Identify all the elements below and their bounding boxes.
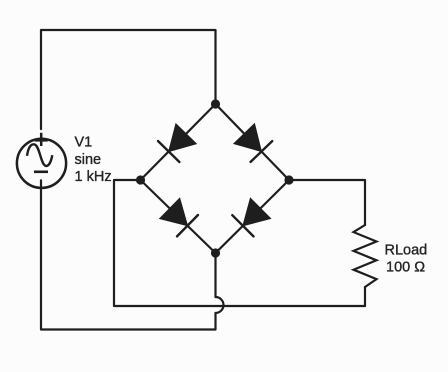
label V1 value [75,135,112,186]
node left (bridge) [136,175,145,184]
wire top from V1 to top node [41,30,216,129]
wire RLoad bottom lead [364,287,366,306]
diode D4 (bottom-right arm) [232,198,270,236]
voltage source V1 [17,133,66,188]
svg-text:V1: V1 [75,135,93,151]
label RLoad value [385,243,428,276]
diode D1 (top-left arm) [158,124,196,162]
svg-text:1 kHz: 1 kHz [75,169,112,185]
wire bridge edge bottom-left [141,180,216,253]
svg-text:sine: sine [75,152,102,168]
diode D3 (bottom-left arm) [160,198,198,236]
wire from hop to bridge bottom node [214,253,216,297]
svg-text:100 Ω: 100 Ω [386,260,425,276]
diode D2 (top-right arm) [234,124,272,162]
resistor RLoad zigzag [354,225,377,287]
wire bridge edge top-right [216,104,290,180]
wire left node to bottom horizontal rail [114,180,365,306]
wire hop over horizontal rail [216,297,224,313]
wire right node to RLoad top [289,180,365,225]
node bottom (bridge) [211,248,220,257]
wire V1 bottom to bottom rail [41,180,216,329]
node right (bridge) [284,175,293,184]
svg-text:RLoad: RLoad [385,243,428,259]
node top (bridge) [211,99,220,108]
wire bridge edge top-left [141,104,216,180]
wire bridge edge bottom-right [216,180,290,253]
